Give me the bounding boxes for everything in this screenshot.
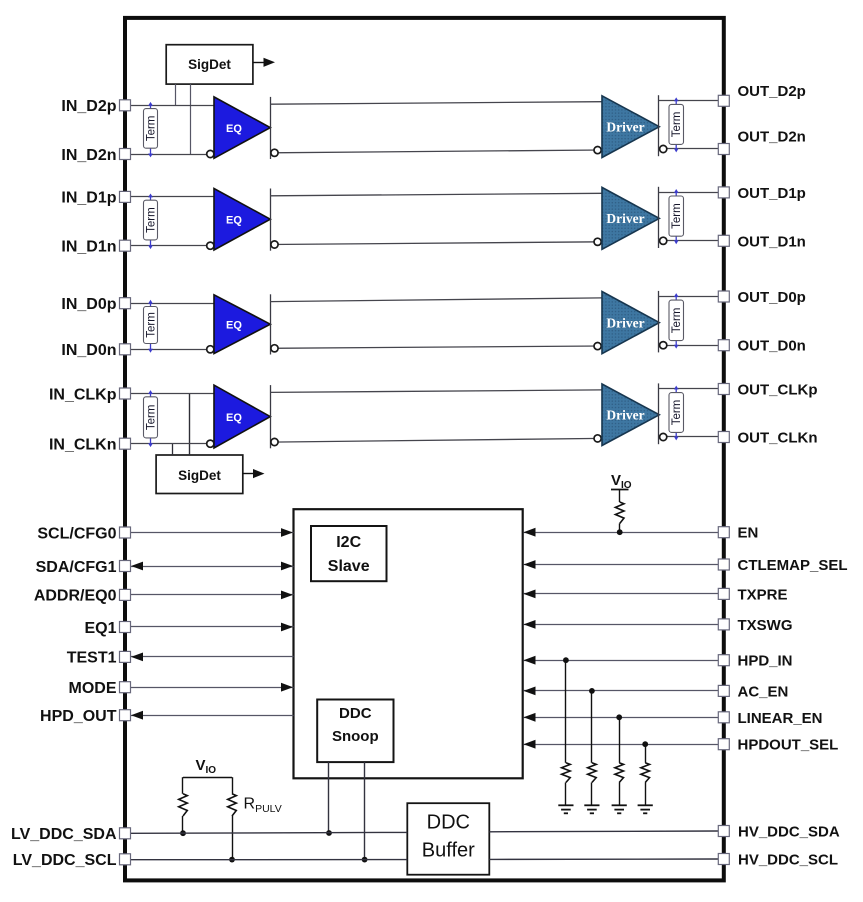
pin HPD_IN <box>718 655 729 666</box>
wire mid D1n rail <box>270 242 602 245</box>
pin IN_CLKn <box>120 438 131 449</box>
svg-text:IN_D0n: IN_D0n <box>61 342 116 359</box>
pin OUT_D1n <box>718 235 729 246</box>
bubble on CLKn rail after EQ <box>271 438 278 445</box>
pin TXPRE <box>718 588 729 599</box>
SigDet output arrow (CLK) <box>243 473 254 475</box>
pin IN_CLKp <box>120 388 131 399</box>
svg-text:OUT_D0p: OUT_D0p <box>738 289 806 306</box>
label IN_D0n <box>61 342 116 359</box>
label LV_DDC_SCL <box>13 852 117 869</box>
label OUT_D0p <box>738 289 806 306</box>
I2C control block (outer) <box>294 509 523 778</box>
pin IN_D2n <box>120 149 131 160</box>
pin CTLEMAP_SEL <box>718 559 729 570</box>
node bar after EQ (D1) <box>270 189 272 251</box>
label LV_DDC_SDA <box>11 826 117 843</box>
bubble on OUT_D1n <box>660 237 667 244</box>
junction on LINEAR_EN line <box>616 714 622 720</box>
label AC_EN <box>738 683 789 700</box>
svg-text:DDC: DDC <box>427 811 470 833</box>
label IN_CLKp <box>49 386 117 403</box>
svg-text:EQ: EQ <box>226 412 242 424</box>
wire IN_D2p to EQ <box>130 105 214 107</box>
svg-text:OUT_D1p: OUT_D1p <box>738 185 806 202</box>
svg-text:OUT_CLKn: OUT_CLKn <box>738 430 818 447</box>
wire mid D0p rail <box>270 298 602 302</box>
termination block Term (output D2) <box>669 97 684 152</box>
svg-text:EN: EN <box>738 525 759 542</box>
pin SDA/CFG1 <box>120 561 131 572</box>
label MODE <box>69 680 117 697</box>
svg-text:Term: Term <box>671 203 683 229</box>
pull-down resistor (LINEAR_EN) <box>619 717 621 763</box>
supply V_IO (DDC pull-ups) <box>196 757 217 776</box>
svg-text:OUT_D0n: OUT_D0n <box>738 338 806 355</box>
pin TEST1 <box>120 651 131 662</box>
label OUT_D2p <box>738 83 806 100</box>
wire SigDet tap to IN_CLKn rail <box>172 444 174 455</box>
svg-text:HPD_OUT: HPD_OUT <box>40 708 117 725</box>
svg-text:Term: Term <box>146 405 158 431</box>
pin IN_D1n <box>120 240 131 251</box>
wire HPDOUT_SEL <box>524 744 719 746</box>
wire IN_D1p to EQ <box>130 196 214 198</box>
wire DDC Buffer to HV_DDC_SDA <box>489 830 718 833</box>
svg-text:OUT_D2n: OUT_D2n <box>738 129 806 146</box>
ground (HPDOUT_SEL pull-down) <box>638 805 653 813</box>
wire AC_EN <box>524 690 719 692</box>
label OUT_CLKp <box>738 382 818 399</box>
pin AC_EN <box>718 685 729 696</box>
wire SigDet tap to IN_CLKp rail <box>189 394 191 456</box>
pin IN_D1p <box>120 191 131 202</box>
inverting-input bubble (EQ CLK) <box>207 440 214 447</box>
label OUT_D0n <box>738 338 806 355</box>
wire EQ1 <box>130 626 293 628</box>
I2C Slave block <box>311 526 387 581</box>
wire DDC Snoop to SCL <box>364 762 366 860</box>
Driver amplifier (D0) <box>602 292 659 354</box>
pin IN_D0n <box>120 344 131 355</box>
svg-text:EQ: EQ <box>226 123 242 135</box>
wire IN_D1n to EQ <box>130 245 214 247</box>
DDC Buffer block <box>407 803 489 875</box>
V_IO rail for R_PULV <box>183 777 232 779</box>
svg-text:IN_D2n: IN_D2n <box>61 147 116 164</box>
svg-text:Term: Term <box>671 112 683 138</box>
label HPDOUT_SEL <box>738 737 839 754</box>
wire DDC Snoop to SDA <box>328 762 330 833</box>
wire IN_D2n to EQ <box>130 154 214 156</box>
svg-text:EQ: EQ <box>226 215 242 227</box>
Driver amplifier (D2) <box>602 96 659 158</box>
svg-text:SigDet: SigDet <box>178 468 221 483</box>
pin OUT_D0p <box>718 291 729 302</box>
svg-text:TXSWG: TXSWG <box>738 617 793 634</box>
svg-text:IN_CLKp: IN_CLKp <box>49 386 117 403</box>
svg-text:Term: Term <box>671 308 683 334</box>
wire OUT_D0n <box>659 345 719 347</box>
SigDet output arrow <box>253 62 264 64</box>
pin OUT_CLKn <box>718 432 729 443</box>
wire TXSWG <box>524 624 719 626</box>
pin IN_D2p <box>120 100 131 111</box>
wire DDC Buffer to HV_DDC_SCL <box>489 858 718 860</box>
label IN_D2n <box>61 147 116 164</box>
wire OUT_D1p <box>659 192 719 194</box>
pin OUT_D0n <box>718 340 729 351</box>
label HV_DDC_SDA <box>738 824 840 841</box>
pin MODE <box>120 682 131 693</box>
svg-text:TXPRE: TXPRE <box>738 586 788 603</box>
bubble on OUT_D2n <box>660 145 667 152</box>
label IN_D0p <box>61 296 116 313</box>
pin TXSWG <box>718 619 729 630</box>
wire TEST1 <box>130 656 293 658</box>
wire OUT_D2p <box>659 100 719 102</box>
resistor R_PULV (SCL) <box>232 777 234 794</box>
bubble on CLKn rail before Driver <box>594 435 601 442</box>
ground (LINEAR_EN pull-down) <box>612 805 627 813</box>
label CTLEMAP_SEL <box>738 557 848 574</box>
EQ amplifier (D0) <box>214 295 270 354</box>
wire OUT_CLKp <box>659 388 719 390</box>
svg-text:IN_D2p: IN_D2p <box>61 98 116 115</box>
wire SCL/CFG0 <box>130 532 293 534</box>
label HPD_OUT <box>40 708 117 725</box>
wire mid D2n rail <box>270 150 602 153</box>
wire ADDR/EQ0 <box>130 594 293 596</box>
svg-text:I2C: I2C <box>336 534 361 551</box>
wire mid D0n rail <box>270 346 602 348</box>
EQ amplifier (D1) <box>214 189 270 251</box>
pull-down resistor (AC_EN) <box>591 691 593 763</box>
svg-text:ADDR/EQ0: ADDR/EQ0 <box>34 588 117 605</box>
bubble on D0n rail before Driver <box>594 343 601 350</box>
svg-text:Snoop: Snoop <box>332 728 379 745</box>
signal-detect block SigDet (D2) <box>166 45 253 84</box>
inverting-input bubble (EQ D0) <box>207 346 214 353</box>
label IN_D1p <box>61 190 116 207</box>
junction on HPDOUT_SEL line <box>642 741 648 747</box>
svg-text:Driver: Driver <box>606 211 644 226</box>
bubble on OUT_D0n <box>660 342 667 349</box>
chip outline (outer border) <box>125 18 724 881</box>
DDC Snoop block <box>317 700 393 763</box>
V_IO supply bar <box>611 489 629 491</box>
wire IN_D0p to EQ <box>130 303 214 305</box>
junction DDC Snoop / SDA <box>326 830 332 836</box>
pin OUT_D1p <box>718 187 729 198</box>
pull-down resistor (HPDOUT_SEL) <box>645 744 647 763</box>
inverting-input bubble (EQ D1) <box>207 242 214 249</box>
svg-text:MODE: MODE <box>69 680 117 697</box>
node bar after EQ (D0) <box>270 294 272 354</box>
label IN_D2p <box>61 98 116 115</box>
svg-text:IN_D1n: IN_D1n <box>61 239 116 256</box>
label HPD_IN <box>738 653 793 670</box>
svg-text:Driver: Driver <box>606 315 644 330</box>
node bar after EQ (CLK) <box>270 385 272 448</box>
wire LINEAR_EN <box>524 717 719 719</box>
svg-text:HPDOUT_SEL: HPDOUT_SEL <box>738 737 839 754</box>
wire HPD_OUT <box>130 715 293 717</box>
resistor R_PULV (SDA) <box>182 777 184 794</box>
svg-text:Term: Term <box>146 116 158 142</box>
node bar after Driver (D1) <box>658 187 660 248</box>
ground (HPD_IN pull-down) <box>558 805 573 813</box>
node bar after EQ (D2) <box>270 97 272 159</box>
bubble on D2n rail before Driver <box>594 147 601 154</box>
node bar after Driver (D0) <box>658 291 660 353</box>
pull-down resistor (HPD_IN) <box>565 660 567 763</box>
wire mid D2p rail <box>270 102 602 105</box>
pin OUT_D2p <box>718 95 729 106</box>
label HV_DDC_SCL <box>738 852 838 869</box>
svg-text:OUT_D2p: OUT_D2p <box>738 83 806 100</box>
pin SCL/CFG0 <box>120 527 131 538</box>
junction on EN line <box>617 529 623 535</box>
wire OUT_D2n <box>659 148 719 150</box>
label EN <box>738 525 759 542</box>
svg-text:IN_CLKn: IN_CLKn <box>49 437 117 454</box>
svg-text:Slave: Slave <box>328 558 370 575</box>
svg-text:Term: Term <box>146 312 158 338</box>
pin LINEAR_EN <box>718 712 729 723</box>
label TXPRE <box>738 586 788 603</box>
bubble on D1n rail after EQ <box>271 241 278 248</box>
bubble on D1n rail before Driver <box>594 238 601 245</box>
ground (AC_EN pull-down) <box>584 805 599 813</box>
pin IN_D0p <box>120 298 131 309</box>
label OUT_D1n <box>738 233 806 250</box>
termination block Term (output D0) <box>669 293 684 349</box>
svg-text:HV_DDC_SDA: HV_DDC_SDA <box>738 824 840 841</box>
label R_PULV <box>244 796 282 816</box>
svg-text:OUT_CLKp: OUT_CLKp <box>738 382 818 399</box>
EQ amplifier (D2) <box>214 97 270 158</box>
bubble on OUT_CLKn <box>660 433 667 440</box>
supply V_IO (EN pull-up) <box>611 472 632 491</box>
termination block Term (output D1) <box>669 189 684 244</box>
pin HV_DDC_SDA <box>718 826 729 837</box>
pin ADDR/EQ0 <box>120 589 131 600</box>
svg-text:SDA/CFG1: SDA/CFG1 <box>36 559 117 576</box>
label OUT_D2n <box>738 129 806 146</box>
wire SDA/CFG1 <box>130 566 293 568</box>
pin EQ1 <box>120 622 131 633</box>
label TXSWG <box>738 617 793 634</box>
bubble on D2n rail after EQ <box>271 149 278 156</box>
termination block Term (input D0) <box>144 300 158 353</box>
node bar after Driver (D2) <box>658 95 660 156</box>
svg-text:SigDet: SigDet <box>188 57 231 72</box>
wire LV_DDC_SDA to DDC Buffer <box>130 831 407 834</box>
svg-text:LV_DDC_SCL: LV_DDC_SCL <box>13 852 117 869</box>
label OUT_CLKn <box>738 430 818 447</box>
wire OUT_CLKn <box>659 436 719 438</box>
wire IN_CLKp to EQ <box>130 393 214 395</box>
svg-text:Buffer: Buffer <box>422 840 475 862</box>
Driver amplifier (CLK) <box>602 384 659 446</box>
wire mid D1p rail <box>270 193 602 196</box>
wire MODE <box>130 687 293 689</box>
svg-text:Driver: Driver <box>606 120 644 135</box>
label IN_CLKn <box>49 437 117 454</box>
wire mid CLKn rail <box>270 438 602 442</box>
label OUT_D1p <box>738 185 806 202</box>
label TEST1 <box>67 650 117 667</box>
wire SigDet tap to IN_D2n rail <box>190 84 192 154</box>
bubble on D0n rail after EQ <box>271 345 278 352</box>
pin HPD_OUT <box>120 710 131 721</box>
svg-text:HV_DDC_SCL: HV_DDC_SCL <box>738 852 838 869</box>
wire HPD_IN <box>524 660 719 662</box>
svg-text:SCL/CFG0: SCL/CFG0 <box>37 525 116 542</box>
svg-text:LV_DDC_SDA: LV_DDC_SDA <box>11 826 117 843</box>
svg-text:Driver: Driver <box>606 408 644 423</box>
wire IN_CLKn to EQ <box>130 443 214 445</box>
label SDA/CFG1 <box>36 559 117 576</box>
termination block Term (input D2) <box>144 102 158 157</box>
wire OUT_D0p <box>659 296 719 298</box>
svg-text:Term: Term <box>671 400 683 426</box>
svg-text:TEST1: TEST1 <box>67 650 117 667</box>
Driver amplifier (D1) <box>602 187 659 249</box>
wire TXPRE <box>524 593 719 595</box>
inverting-input bubble (EQ D2) <box>207 150 214 157</box>
label SCL/CFG0 <box>37 525 116 542</box>
junction on LV_DDC_SDA line <box>180 830 186 836</box>
termination block Term (input D1) <box>144 194 158 250</box>
svg-text:OUT_D1n: OUT_D1n <box>738 233 806 250</box>
pin LV_DDC_SCL <box>120 854 131 865</box>
svg-text:CTLEMAP_SEL: CTLEMAP_SEL <box>738 557 848 574</box>
signal-detect block SigDet (CLK) <box>156 455 243 494</box>
resistor pull-up to EN <box>619 489 621 502</box>
node bar after Driver (CLK) <box>658 383 660 444</box>
svg-text:HPD_IN: HPD_IN <box>738 653 793 670</box>
label LINEAR_EN <box>738 710 823 727</box>
wire mid CLKp rail <box>270 390 602 393</box>
svg-text:Term: Term <box>146 207 158 233</box>
svg-text:DDC: DDC <box>339 705 372 722</box>
svg-text:IN_D0p: IN_D0p <box>61 296 116 313</box>
pin OUT_CLKp <box>718 384 729 395</box>
label ADDR/EQ0 <box>34 588 117 605</box>
wire EN <box>524 532 719 534</box>
wire LV_DDC_SCL to DDC Buffer <box>130 859 407 861</box>
wire IN_D0n to EQ <box>130 349 214 351</box>
junction on LV_DDC_SCL line <box>229 857 235 863</box>
junction on HPD_IN line <box>563 657 569 663</box>
junction DDC Snoop / SCL <box>362 857 368 863</box>
termination block Term (output CLK) <box>669 386 684 441</box>
termination block Term (input CLK) <box>144 390 158 447</box>
wire CTLEMAP_SEL <box>524 564 719 566</box>
EQ amplifier (CLK) <box>214 385 270 448</box>
pin OUT_D2n <box>718 144 729 155</box>
svg-text:IN_D1p: IN_D1p <box>61 190 116 207</box>
wire SigDet tap to IN_D2p rail <box>175 84 177 105</box>
pin LV_DDC_SDA <box>120 828 131 839</box>
pin HPDOUT_SEL <box>718 739 729 750</box>
junction on AC_EN line <box>589 688 595 694</box>
pin EN <box>718 527 729 538</box>
svg-text:AC_EN: AC_EN <box>738 683 789 700</box>
wire OUT_D1n <box>659 240 719 242</box>
label EQ1 <box>84 620 116 637</box>
pin HV_DDC_SCL <box>718 854 729 865</box>
svg-text:EQ1: EQ1 <box>84 620 116 637</box>
svg-text:EQ: EQ <box>226 320 242 332</box>
svg-text:LINEAR_EN: LINEAR_EN <box>738 710 823 727</box>
label IN_D1n <box>61 239 116 256</box>
